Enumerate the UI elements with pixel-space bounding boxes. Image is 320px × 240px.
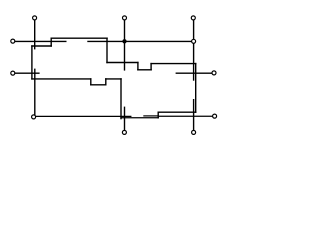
wire: vertical drop to bottom bus	[120, 79, 122, 119]
node T2	[123, 16, 127, 20]
wire: horizontal to node J2	[88, 40, 194, 42]
node R1	[212, 71, 216, 75]
node B1	[122, 130, 126, 134]
wire: dip left vertical	[137, 63, 139, 70]
node T3	[191, 16, 195, 20]
wire: upper horizontal	[51, 37, 107, 39]
node L2	[11, 71, 15, 75]
node B2	[192, 130, 196, 134]
wire: upper middle horizontal left of dip	[107, 62, 138, 64]
wire: bottom bus lower segment	[121, 117, 158, 119]
wire: jog vertical	[157, 112, 159, 118]
wire: dip right vertical	[150, 64, 152, 70]
junction J3	[122, 39, 126, 43]
wire: upper middle horizontal right of dip	[151, 63, 196, 65]
wire: stem of terminal T2	[124, 20, 126, 70]
wire: stem of terminal B1	[124, 107, 126, 130]
wire: horizontal from terminal L1	[15, 40, 66, 42]
node T1	[33, 16, 37, 20]
node J2	[192, 39, 196, 43]
node R2	[213, 114, 217, 118]
node L1	[11, 39, 15, 43]
wire: stem of terminal T1	[34, 20, 36, 48]
wire: notch left vertical	[90, 79, 92, 85]
wire: horizontal to terminal R2 right part	[158, 115, 212, 117]
wire: step vertical	[50, 38, 52, 46]
wire: horizontal from terminal L2	[15, 72, 39, 74]
wire: middle bus right part	[106, 78, 121, 80]
wire: vertical drop	[106, 38, 108, 62]
wire: vertical down to node J1	[34, 69, 36, 115]
wire: right trunk vertical	[195, 64, 197, 113]
wire: stem of terminal B2	[193, 100, 195, 130]
wire: bottom bus from node J1	[36, 115, 131, 117]
wire: horizontal D	[32, 45, 51, 47]
wire: lower right horizontal	[158, 111, 196, 113]
wire: stem of terminal T3 through node J2	[193, 20, 195, 80]
wire: notch right vertical	[105, 79, 107, 85]
node J1	[32, 115, 36, 119]
wire: notch bottom	[91, 84, 106, 86]
wire: dip bottom	[138, 69, 151, 71]
wire: vertical E	[31, 46, 33, 79]
wire: horizontal to terminal R1	[176, 72, 212, 74]
wire: middle bus left part	[32, 78, 91, 80]
wire: horizontal to terminal R2	[144, 115, 158, 117]
